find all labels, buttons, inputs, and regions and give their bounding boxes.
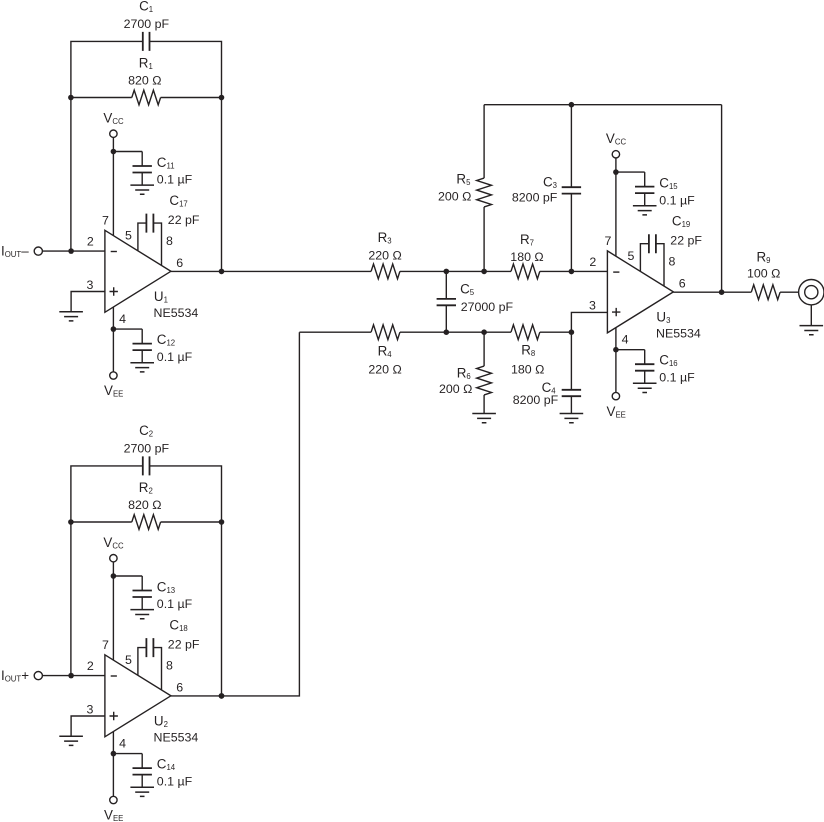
svg-text:0.1 µF: 0.1 µF xyxy=(157,775,193,789)
svg-text:4: 4 xyxy=(119,737,126,751)
svg-text:NE5534: NE5534 xyxy=(154,730,199,744)
svg-text:8200 pF: 8200 pF xyxy=(512,190,558,204)
svg-text:3: 3 xyxy=(589,299,596,313)
svg-text:0.1 µF: 0.1 µF xyxy=(659,193,695,207)
svg-text:6: 6 xyxy=(679,277,686,291)
svg-text:7: 7 xyxy=(102,638,109,652)
svg-text:0.1 µF: 0.1 µF xyxy=(157,350,193,364)
svg-text:8200 pF: 8200 pF xyxy=(513,393,559,407)
svg-text:3: 3 xyxy=(87,278,94,292)
svg-text:22 pF: 22 pF xyxy=(670,234,702,248)
svg-text:0.1 µF: 0.1 µF xyxy=(659,371,695,385)
svg-text:180 Ω: 180 Ω xyxy=(510,250,543,264)
svg-text:5: 5 xyxy=(125,229,132,243)
svg-text:5: 5 xyxy=(125,653,132,667)
svg-text:8: 8 xyxy=(668,254,675,268)
svg-text:200 Ω: 200 Ω xyxy=(438,190,471,204)
svg-text:2700 pF: 2700 pF xyxy=(124,441,170,455)
svg-text:820 Ω: 820 Ω xyxy=(128,73,161,87)
svg-text:8: 8 xyxy=(166,658,173,672)
svg-text:7: 7 xyxy=(604,234,611,248)
svg-text:8: 8 xyxy=(166,234,173,248)
svg-text:NE5534: NE5534 xyxy=(154,306,199,320)
svg-text:22 pF: 22 pF xyxy=(168,638,200,652)
svg-text:3: 3 xyxy=(87,703,94,717)
svg-text:2: 2 xyxy=(87,659,94,673)
svg-text:NE5534: NE5534 xyxy=(656,327,701,341)
svg-text:820 Ω: 820 Ω xyxy=(128,498,161,512)
svg-text:22 pF: 22 pF xyxy=(168,213,200,227)
svg-text:100 Ω: 100 Ω xyxy=(747,267,780,281)
svg-text:4: 4 xyxy=(622,333,629,347)
svg-text:0.1 µF: 0.1 µF xyxy=(157,597,193,611)
svg-text:4: 4 xyxy=(119,312,126,326)
svg-text:200 Ω: 200 Ω xyxy=(439,382,472,396)
svg-text:5: 5 xyxy=(627,249,634,263)
svg-text:2: 2 xyxy=(87,235,94,249)
svg-text:2: 2 xyxy=(589,255,596,269)
svg-text:180 Ω: 180 Ω xyxy=(511,362,544,376)
svg-text:27000 pF: 27000 pF xyxy=(461,300,514,314)
svg-text:0.1 µF: 0.1 µF xyxy=(157,173,193,187)
svg-text:7: 7 xyxy=(102,214,109,228)
svg-text:6: 6 xyxy=(176,680,183,694)
svg-text:2700 pF: 2700 pF xyxy=(124,17,170,31)
svg-text:220 Ω: 220 Ω xyxy=(368,249,401,263)
svg-text:6: 6 xyxy=(176,256,183,270)
svg-text:220 Ω: 220 Ω xyxy=(368,362,401,376)
